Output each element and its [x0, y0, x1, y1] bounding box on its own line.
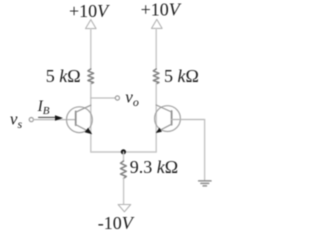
transistor Q2 emitter lead	[156, 124, 171, 132]
transistor Q2 collector lead	[156, 105, 171, 112]
transistor Q2 base bar	[171, 111, 173, 125]
current arrow IB	[39, 116, 57, 118]
svg-text:5 kΩ: 5 kΩ	[164, 66, 199, 86]
svg-text:9.3 kΩ: 9.3 kΩ	[130, 157, 178, 177]
node junction dot (emitter rail / RE)	[121, 149, 126, 154]
supply arrow -10V	[118, 205, 131, 212]
wire: Q2 base to ground drop	[172, 119, 205, 121]
wire: left supply to R1 top	[90, 29, 92, 69]
transistor Q1 emitter lead	[76, 125, 91, 133]
supply arrow +10V (left)	[86, 20, 97, 29]
wire: bottom emitter rail	[91, 151, 156, 153]
transistor Q1 emitter arrowhead	[85, 128, 93, 135]
node vo terminal	[115, 96, 119, 100]
resistor R1 5k (left zigzag)	[88, 69, 94, 84]
wire: RE bottom to -10V arrow	[123, 178, 125, 204]
wire: right supply to R2 top	[155, 28, 157, 69]
wire: ground drop vertical	[204, 120, 206, 181]
ground symbol	[199, 181, 211, 186]
svg-text:+10V: +10V	[141, 0, 182, 20]
wire: R1 bottom down to Q1 collector/emitter line and bottom rail	[90, 84, 92, 152]
transistor Q2 emitter arrowhead	[156, 128, 162, 133]
supply arrow +10V (right)	[152, 19, 163, 28]
transistor Q1 collector lead	[76, 105, 91, 112]
wire: R2 bottom down through Q2 to bottom rail	[155, 84, 157, 152]
resistor RE 9.3k (zigzag)	[121, 161, 127, 178]
resistor R2 5k (right zigzag)	[153, 69, 159, 84]
wire: vo tap	[91, 97, 115, 99]
wire: junction to RE top	[123, 152, 125, 161]
svg-text:5 kΩ: 5 kΩ	[46, 66, 81, 86]
transistor Q1 circle	[67, 107, 93, 133]
transistor Q2 circle	[155, 106, 181, 132]
node vs terminal	[29, 118, 33, 122]
transistor Q1 base bar	[75, 111, 77, 125]
svg-text:-10V: -10V	[98, 213, 135, 233]
wire: vs terminal to Q1 base	[34, 119, 76, 121]
svg-text:+10V: +10V	[69, 1, 110, 21]
